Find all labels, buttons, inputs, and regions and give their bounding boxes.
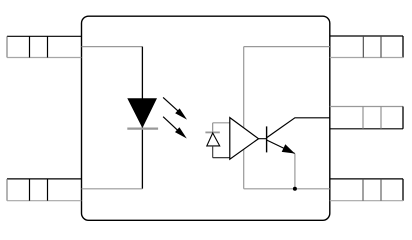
LED D1 triangle [128, 99, 156, 127]
photodiode branch left stub bottom [212, 146, 214, 158]
junction dot on ground rail [293, 187, 297, 191]
transistor Q1 emitter [267, 140, 295, 154]
package body U1 [82, 16, 330, 220]
wire: Vcc wire from pin 6 [244, 46, 330, 48]
wire: Vcc vertical line down through amplifier [243, 47, 245, 189]
wire: LED vertical line (anode to cathode) [141, 47, 143, 189]
photodiode branch bottom wire [213, 157, 230, 159]
light arrow 2 [163, 117, 187, 139]
pin 4 (bottom right) [330, 179, 403, 201]
photodiode D2 cathode bar [205, 131, 219, 133]
pin 6 (top right) [330, 36, 403, 58]
pin 5 (middle right) [330, 107, 403, 129]
light arrow 1 [163, 97, 187, 119]
wire: anode wire from pin 1 to LED [82, 46, 143, 48]
photodiode D2 triangle [207, 133, 220, 146]
wire: ground rail to pin 4 [244, 188, 330, 190]
photodiode branch left stub top [212, 123, 214, 132]
pin 1 (top left) [7, 36, 81, 57]
transistor Q1 emitter arrowhead [282, 144, 295, 153]
pin 3 (bottom left) [7, 179, 81, 201]
LED D1 cathode bar [127, 128, 158, 130]
photodiode branch top wire [213, 122, 230, 124]
amplifier A1 triangle [230, 118, 259, 160]
transistor Q1 collector [267, 118, 330, 138]
transistor Q1 base bar [266, 126, 268, 152]
wire: amplifier output to transistor base [259, 138, 267, 140]
wire: cathode wire from LED to pin 3 [82, 188, 143, 190]
wire: emitter down to ground rail [294, 154, 296, 189]
